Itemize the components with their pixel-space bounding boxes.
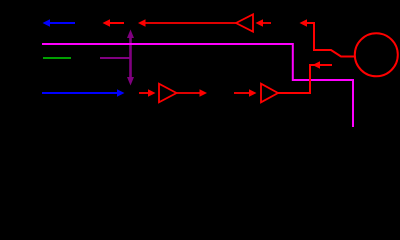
amplifier U1 (bottom left, pointing right) — [159, 84, 177, 103]
amplifier U2 (bottom, pointing right) — [261, 84, 278, 103]
magenta feedback bus wire — [42, 44, 353, 127]
red wire into amplifier U2 with arrow (pointing right) — [234, 92, 250, 94]
amplifier U3 (top, pointing left) — [236, 14, 253, 31]
red arrow into U3 input — [262, 22, 271, 24]
red arrow into amplifier U1 (bottom, pointing right) — [139, 92, 149, 94]
red arrow from oscillator corner (top right, pointing left) — [306, 22, 314, 24]
red wire U2 output to vertical riser — [278, 92, 311, 94]
red long wire with arrow (top, pointing left) — [145, 22, 236, 24]
red arrow at tuning port (pointing left) — [311, 64, 332, 66]
vertical wire down from tuning port — [309, 64, 311, 94]
oscillator O1 (circle) — [355, 33, 398, 76]
blue input arrow (bottom left, pointing right) — [42, 92, 118, 94]
red wire U1 output with arrow (pointing right) — [177, 92, 201, 94]
red arrow into left block (top, pointing left) — [109, 22, 124, 24]
control arrowhead up — [127, 30, 134, 39]
control arrow (purple) vertical shaft — [129, 37, 132, 80]
control arrow (purple) horizontal wire — [100, 57, 131, 59]
green reference segment — [43, 57, 71, 59]
blue output arrow (top left, pointing left) — [49, 22, 75, 24]
control arrowhead down — [127, 77, 134, 86]
wire oscillator to corner (with switch jog) — [314, 22, 355, 57]
